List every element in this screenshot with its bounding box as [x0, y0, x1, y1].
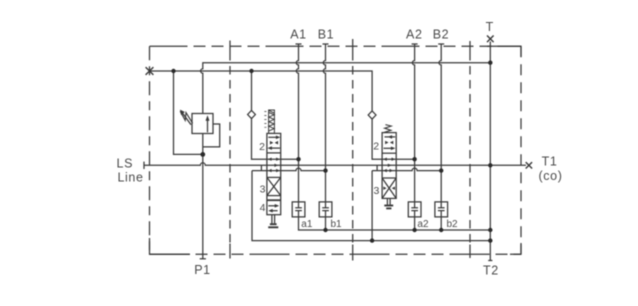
wire B-port stub valve V1 to B1 with hop over A1: [252, 168, 326, 171]
check valve CV1: [248, 110, 256, 118]
svg-text:LS: LS: [117, 157, 134, 171]
wire relief valve left branch: [174, 71, 203, 154]
port A2 line with cap and hop: [412, 44, 418, 202]
wire relief valve pilot loop: [203, 124, 220, 147]
svg-text:A2: A2: [406, 28, 423, 42]
valve V1 tank symbol: [268, 215, 278, 228]
svg-text:2: 2: [373, 141, 379, 153]
shock valve b1: [319, 202, 332, 217]
wire check valve CV2 lower segment and A-port stub to A2: [372, 119, 415, 159]
valve V2 tank symbol: [384, 198, 393, 208]
wire LS carryover line with hop over P1: [144, 163, 526, 166]
valve V1 position 2 cell arrows: [267, 136, 280, 150]
wire P1 pump line: [200, 134, 206, 259]
svg-text:B1: B1: [318, 28, 335, 42]
svg-text:A1: A1: [290, 28, 307, 42]
wire valve V2 tank drop: [371, 171, 373, 241]
svg-text:3: 3: [260, 184, 266, 196]
svg-text:T2: T2: [483, 264, 499, 278]
valve V1 spring position index marks: [264, 112, 266, 128]
port B2 line with cap and hop: [438, 44, 444, 202]
closed port X at T top: [487, 36, 494, 43]
svg-text:T1: T1: [542, 155, 558, 169]
svg-text:P1: P1: [194, 263, 211, 277]
svg-text:a1: a1: [301, 219, 313, 230]
valve V1 neutral cell arrows: [268, 158, 280, 173]
LS tap tick valve V2: [376, 165, 378, 170]
shock valve a1: [292, 202, 305, 217]
section separator S3 dashed: [469, 41, 471, 258]
wire a2 stem: [414, 217, 416, 230]
valve V1 position 4 cell: [267, 200, 281, 212]
svg-text:B2: B2: [433, 28, 450, 42]
relief valve RV body: [192, 114, 213, 134]
svg-text:b2: b2: [447, 219, 459, 230]
valve V2 position 2 cell arrows: [384, 135, 396, 150]
port B1 line with cap and hops: [323, 44, 329, 202]
shock valve b2: [435, 202, 448, 217]
wire pressure rail y71 with corner down to check valve CV2: [150, 71, 373, 111]
valve V2 position 3 blocked cell X: [382, 178, 396, 198]
svg-text:4: 4: [260, 202, 266, 214]
svg-text:a2: a2: [417, 219, 429, 230]
svg-text:3: 3: [373, 185, 379, 197]
relief valve RV flow arrow: [206, 115, 210, 132]
wire valve V1 tank drop and tank gallery y240: [252, 171, 490, 241]
valve V1 spring: [269, 110, 275, 133]
section separator S1 dashed: [229, 41, 231, 259]
svg-text:(co): (co): [539, 169, 563, 183]
valve V2 neutral cell arrows: [383, 158, 395, 173]
section separator S2 dashed: [352, 39, 354, 261]
LS port cap: [143, 162, 145, 169]
port A1 line with cap and hops: [296, 44, 302, 202]
closed port X at T1 carryover: [526, 162, 532, 168]
wire b1 stem: [325, 217, 327, 230]
valve V2 spring: [384, 125, 391, 133]
svg-text:b1: b1: [331, 219, 343, 230]
wire tank line T top (relief drain to T port): [201, 63, 491, 114]
port T / T2 vertical line: [488, 42, 492, 261]
valve V1 position 3 blocked cell X: [267, 177, 281, 195]
spool valve V1 body: [267, 133, 281, 214]
wire B-port stub valve V2 to B2 with hop over A2: [372, 168, 441, 171]
shock valve a2: [408, 202, 421, 217]
svg-text:Line: Line: [117, 170, 143, 184]
enclosure dashed border: [150, 46, 522, 254]
svg-text:2: 2: [259, 141, 265, 153]
relief valve RV adjustable spring: [180, 110, 193, 125]
wire b2 stem: [440, 217, 442, 230]
spool valve V2 body: [382, 133, 396, 199]
check valve CV2: [368, 111, 376, 119]
svg-text:T: T: [486, 20, 494, 34]
wire shock-valve gallery y230 from a1: [299, 217, 491, 230]
closed port X at left border: [146, 67, 154, 75]
wire check valve CV1 branch and A-port stub to A1: [252, 71, 299, 159]
LS tap tick valve V1: [260, 165, 262, 170]
